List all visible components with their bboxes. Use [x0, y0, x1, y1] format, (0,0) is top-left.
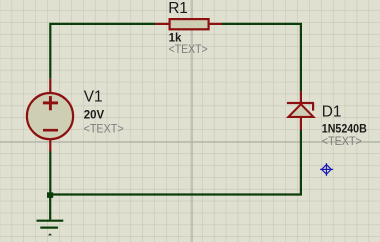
label D1 text placeholder: [322, 134, 362, 148]
svg-text:R1: R1: [168, 0, 188, 17]
label R1 ref: [168, 0, 188, 17]
label V1 ref: [84, 89, 103, 106]
resistor R1: [155, 19, 222, 29]
wire left-bottom: from V1 bottom down to junction: [49, 151, 51, 195]
zener diode D1: [287, 92, 314, 131]
origin marker crosshair: [320, 163, 333, 176]
label D1 value 1N5240B: [322, 121, 367, 135]
label V1 text placeholder: [84, 121, 124, 135]
svg-text:V1: V1: [84, 89, 103, 106]
label R1 text placeholder: [169, 42, 208, 56]
svg-text:<TEXT>: <TEXT>: [169, 42, 208, 56]
wire top-right: from R1 right to D1 top: [222, 24, 301, 92]
label V1 value 20V: [84, 107, 104, 121]
svg-text:<TEXT>: <TEXT>: [84, 121, 124, 135]
svg-text:<TEXT>: <TEXT>: [322, 134, 362, 148]
label D1 ref: [322, 103, 342, 120]
wire bottom: from D1 bottom down and left to junction: [50, 130, 301, 195]
svg-text:20V: 20V: [84, 107, 104, 121]
voltage source V1: [27, 79, 73, 152]
wire top-left: from V1 top up and right to R1: [50, 24, 155, 79]
svg-text:D1: D1: [322, 103, 342, 120]
node junction dot: [47, 192, 53, 198]
ground: [37, 195, 64, 236]
label R1 value 1k: [169, 33, 182, 45]
svg-text:1N5240B: 1N5240B: [322, 121, 367, 135]
